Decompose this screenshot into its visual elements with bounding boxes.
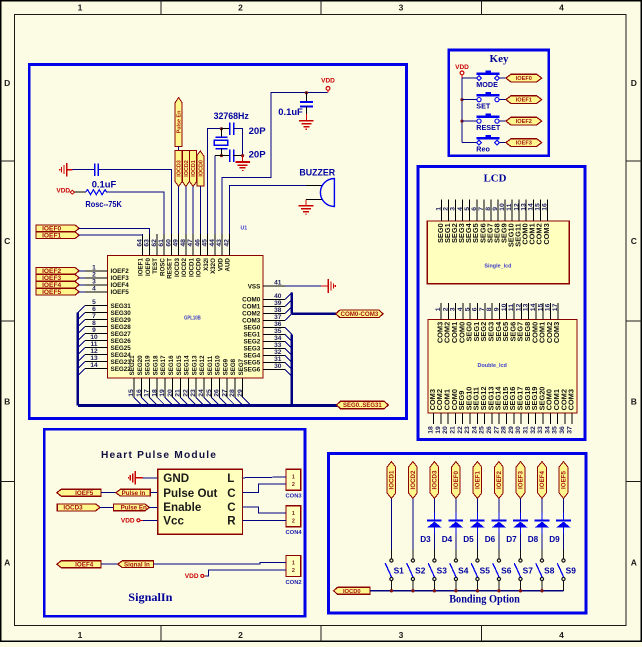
svg-text:COM0-COM3: COM0-COM3 — [340, 311, 378, 318]
port IOEF5 (Bonding, vertical) — [559, 462, 568, 499]
port IOCD3 (HPM) — [57, 504, 100, 511]
wire VDD to CON2-2 — [204, 575, 206, 577]
IC Double_lcd body — [428, 320, 577, 413]
wire S9 to bus — [562, 581, 564, 591]
wire D3 to S3 — [433, 534, 435, 549]
port IOCD1 (vertical) — [190, 151, 197, 187]
svg-text:1: 1 — [78, 3, 83, 13]
ground (buzzer) — [299, 205, 314, 207]
svg-text:47: 47 — [187, 239, 194, 247]
svg-text:2: 2 — [92, 271, 96, 278]
wire D8 to S8 — [541, 534, 543, 549]
svg-text:0.1uF: 0.1uF — [278, 106, 303, 117]
svg-text:2: 2 — [292, 519, 295, 525]
IC U1 bottom pins with numbers and names — [133, 378, 135, 397]
wire bottom node — [215, 155, 230, 157]
port IOEF2 (Bonding, vertical) — [495, 462, 504, 499]
wire entries COM0-COM3 to bus — [285, 292, 292, 299]
port IOEF4 (HPM) — [57, 561, 101, 568]
svg-text:RESET: RESET — [476, 123, 501, 132]
svg-text:28: 28 — [501, 426, 508, 434]
svg-text:S7: S7 — [523, 566, 534, 576]
switch S4 — [454, 559, 457, 562]
svg-text:20: 20 — [167, 389, 174, 397]
switch S7 — [519, 559, 522, 562]
resistor Rosc--75K — [85, 190, 106, 195]
IC U1 GPL10B body — [108, 256, 264, 379]
svg-text:9: 9 — [494, 307, 501, 311]
svg-text:IOEF2: IOEF2 — [496, 471, 503, 489]
svg-text:5: 5 — [464, 307, 471, 311]
svg-text:IOEF1: IOEF1 — [475, 471, 482, 489]
wire Key VDD rail — [461, 78, 463, 143]
svg-text:1: 1 — [78, 630, 83, 640]
wire IOEF2 to D6 — [498, 499, 500, 513]
svg-text:SEG12: SEG12 — [199, 355, 206, 376]
wire C decouple to gnd — [305, 106, 307, 113]
port IOEF3 (Key) — [506, 139, 542, 147]
svg-text:D: D — [631, 78, 637, 88]
svg-text:33: 33 — [537, 426, 544, 434]
svg-text:4: 4 — [559, 630, 564, 640]
frame zone tick marks — [160, 0, 162, 15]
wire C upper to gnd branch — [234, 129, 243, 156]
wire module PulseOut C to CON3-2 — [243, 484, 287, 493]
svg-text:IOCD0: IOCD0 — [196, 258, 203, 277]
svg-text:3: 3 — [399, 3, 404, 13]
diode D5 — [476, 513, 478, 520]
svg-text:14: 14 — [90, 362, 98, 369]
svg-text:IOEF1: IOEF1 — [42, 233, 61, 240]
svg-text:TEST: TEST — [152, 258, 159, 274]
diode D4 — [455, 513, 457, 520]
wire IOCD3 to Pulse En — [100, 506, 114, 508]
svg-text:D5: D5 — [463, 535, 474, 544]
svg-text:COM3: COM3 — [242, 318, 261, 325]
IC Double_lcd bottom pins 18-37 — [433, 413, 435, 424]
wire D5 to S5 — [476, 534, 478, 549]
svg-text:SEG18: SEG18 — [152, 355, 159, 376]
svg-text:X32O: X32O — [210, 258, 217, 274]
diode D8 — [541, 513, 543, 520]
switch RESET (push button) — [462, 120, 479, 122]
svg-text:RESET: RESET — [167, 258, 174, 279]
svg-text:A: A — [631, 558, 637, 568]
wire IOEF4 to pin3 — [79, 284, 85, 286]
svg-text:13: 13 — [520, 203, 527, 211]
IC Double_lcd top pins 1-17 — [440, 303, 442, 320]
junction Key rail row3 — [460, 120, 463, 123]
svg-text:24: 24 — [471, 426, 478, 434]
wire module Vcc R to CON4-2 — [243, 519, 287, 521]
svg-text:D: D — [4, 78, 10, 88]
diode D7 — [519, 513, 521, 520]
svg-text:CON3: CON3 — [286, 494, 303, 500]
svg-text:SEG31: SEG31 — [111, 303, 132, 310]
svg-text:32: 32 — [530, 426, 537, 434]
svg-text:VDD: VDD — [455, 64, 469, 71]
svg-text:Heart Pulse Module: Heart Pulse Module — [101, 450, 217, 461]
svg-text:Enable: Enable — [163, 501, 202, 514]
wire entries SEG31-SEG22 to left bus — [78, 306, 85, 313]
svg-text:D3: D3 — [420, 535, 431, 544]
svg-text:IOCD1: IOCD1 — [188, 258, 195, 277]
connector CON2 — [286, 555, 301, 576]
wire module L to CON3-1 — [243, 476, 287, 479]
svg-text:22: 22 — [182, 389, 189, 397]
svg-text:D8: D8 — [528, 535, 539, 544]
diode D9 — [562, 513, 564, 520]
LCD block border — [418, 167, 585, 440]
svg-text:33: 33 — [274, 342, 282, 349]
port IOCD3 (vertical) — [175, 151, 182, 187]
svg-text:C: C — [4, 236, 10, 246]
wire S1 to bus — [390, 581, 392, 591]
switch S5 — [476, 559, 479, 562]
svg-text:63: 63 — [144, 239, 151, 247]
wire pin41 VSS to ground — [285, 285, 321, 287]
port Pulse En (vertical) — [175, 98, 182, 147]
svg-text:Pulse En: Pulse En — [177, 111, 183, 134]
port IOEF3 — [36, 275, 79, 282]
svg-text:4: 4 — [457, 207, 464, 211]
switch S2 — [411, 559, 414, 562]
svg-text:15: 15 — [537, 303, 544, 311]
wire junction to C decouple — [305, 93, 307, 102]
wire IOEF5 to Pulse In — [101, 492, 116, 494]
svg-text:SignalIn: SignalIn — [128, 592, 173, 604]
svg-text:39: 39 — [274, 300, 282, 307]
MCU block border — [29, 65, 406, 419]
svg-text:25: 25 — [479, 426, 486, 434]
svg-text:12: 12 — [515, 303, 522, 311]
junction Key rail row2 — [460, 98, 463, 101]
svg-text:IOCD3: IOCD3 — [432, 470, 439, 489]
wire IOEF1 to pin64 — [79, 234, 142, 235]
junction S6 rail — [497, 589, 500, 592]
svg-text:13: 13 — [523, 303, 530, 311]
svg-text:25: 25 — [206, 389, 213, 397]
svg-text:10: 10 — [499, 203, 506, 211]
svg-text:12: 12 — [90, 348, 98, 355]
wire Pulse In to module — [150, 492, 157, 494]
svg-text:SEG24: SEG24 — [111, 352, 132, 359]
svg-text:IOEF4: IOEF4 — [539, 471, 546, 489]
wire IOCD1 to pin47 — [192, 187, 194, 235]
wire gnd branch down — [242, 156, 244, 162]
wire IOCD3 to pin49 — [178, 187, 180, 235]
svg-text:SEG3: SEG3 — [243, 346, 260, 353]
svg-text:SEG19: SEG19 — [145, 355, 152, 376]
svg-text:COM3: COM3 — [567, 389, 576, 410]
svg-text:SEG1: SEG1 — [243, 332, 260, 339]
connector CON4 — [286, 506, 301, 527]
svg-text:U1: U1 — [241, 226, 248, 232]
svg-text:SEG28: SEG28 — [111, 324, 132, 331]
junction gnd branch — [241, 154, 244, 157]
wire C lower to gnd branch — [234, 155, 243, 157]
IC Single_lcd body — [427, 221, 569, 284]
svg-text:IOCD3: IOCD3 — [63, 505, 83, 512]
svg-text:Pulse Out: Pulse Out — [163, 487, 217, 500]
svg-text:LCD: LCD — [484, 172, 507, 184]
wire IOCD1 to S1 — [390, 499, 392, 550]
wire Pulse En to IOCD3 flag — [178, 147, 180, 151]
svg-text:62: 62 — [151, 239, 158, 247]
junction VDD decoupling — [305, 91, 308, 94]
svg-text:1: 1 — [92, 264, 96, 271]
svg-text:Pulse In: Pulse In — [122, 490, 146, 497]
svg-text:11: 11 — [506, 203, 513, 210]
svg-text:SEG14: SEG14 — [184, 355, 191, 376]
svg-text:Rosc--75K: Rosc--75K — [85, 200, 121, 209]
wire Signal In to CON2-1 — [154, 563, 287, 565]
wire C to pin60 RESET — [99, 170, 171, 234]
svg-text:40: 40 — [274, 293, 282, 300]
svg-text:SEG4: SEG4 — [243, 353, 260, 360]
svg-text:IOEF3: IOEF3 — [111, 275, 130, 282]
port IOCD0 (Bonding) — [334, 587, 370, 594]
svg-text:SEG11: SEG11 — [207, 355, 214, 375]
switch S1 — [390, 559, 393, 562]
svg-text:2: 2 — [443, 207, 450, 211]
svg-text:10: 10 — [501, 303, 508, 311]
svg-text:44: 44 — [209, 239, 216, 247]
svg-text:41: 41 — [274, 280, 282, 287]
svg-text:SEG16: SEG16 — [168, 355, 175, 376]
bus bottom horizontal SEG — [78, 404, 338, 407]
junction S2 rail — [411, 589, 414, 592]
svg-text:IOEF3: IOEF3 — [518, 471, 525, 489]
svg-text:8: 8 — [92, 320, 96, 327]
svg-text:MODE: MODE — [476, 80, 498, 89]
wire X32I pin45 to crystal top node — [208, 129, 222, 234]
svg-text:B: B — [4, 397, 10, 407]
svg-text:COM2: COM2 — [242, 311, 261, 318]
svg-text:13: 13 — [90, 355, 98, 362]
svg-text:38: 38 — [274, 307, 282, 314]
svg-text:IOEF5: IOEF5 — [42, 289, 61, 296]
port IOEF5 — [36, 289, 79, 296]
svg-text:IOEF0: IOEF0 — [516, 76, 532, 82]
svg-text:CON2: CON2 — [286, 580, 302, 586]
svg-text:C: C — [631, 236, 637, 246]
svg-text:D4: D4 — [442, 535, 453, 544]
wire VDD to R — [75, 191, 86, 193]
svg-text:4: 4 — [92, 285, 96, 292]
svg-text:26: 26 — [214, 389, 221, 397]
svg-text:26: 26 — [486, 426, 493, 434]
wire S6 to bus — [498, 581, 500, 591]
svg-text:14: 14 — [527, 203, 534, 211]
wire buzzer to gnd — [305, 200, 307, 206]
svg-text:S9: S9 — [566, 566, 577, 576]
svg-text:34: 34 — [544, 426, 551, 434]
svg-text:L: L — [227, 472, 234, 485]
svg-text:35: 35 — [552, 426, 559, 434]
svg-text:3: 3 — [450, 307, 457, 311]
svg-text:16: 16 — [542, 203, 549, 211]
svg-text:12: 12 — [513, 203, 520, 211]
svg-text:7: 7 — [478, 207, 485, 211]
IC U1 right pins with numbers and names — [263, 285, 285, 287]
svg-text:24: 24 — [198, 389, 205, 397]
svg-text:1: 1 — [292, 561, 295, 567]
port IOEF3 (Bonding, vertical) — [516, 462, 525, 499]
svg-text:64: 64 — [137, 239, 144, 247]
svg-text:Reo: Reo — [476, 144, 490, 153]
switch Reo (push button) — [462, 142, 479, 144]
svg-text:VDD: VDD — [321, 78, 335, 85]
wire IOEF0 to pin63 — [79, 228, 150, 234]
wire D6 to S6 — [498, 534, 500, 549]
ground (crystal) — [235, 161, 250, 163]
bus left vertical SEG — [77, 313, 80, 406]
IC U1 left pins with numbers and names — [85, 270, 108, 272]
svg-text:14: 14 — [530, 303, 537, 311]
junction S5 rail — [476, 589, 479, 592]
port IOEF5 (HPM) — [57, 489, 101, 496]
svg-text:4: 4 — [457, 307, 464, 311]
wire entries SEG7-SEG21 to bottom bus — [134, 397, 142, 405]
svg-text:20P: 20P — [249, 149, 267, 160]
junction crystal bottom node — [220, 154, 223, 157]
wire S3 to bus — [433, 581, 435, 591]
svg-text:17: 17 — [144, 389, 151, 397]
svg-text:1: 1 — [292, 474, 295, 480]
port IOCD3 (Bonding, vertical) — [430, 462, 439, 499]
svg-text:S2: S2 — [415, 566, 426, 576]
svg-text:R: R — [227, 515, 236, 528]
svg-text:17: 17 — [552, 303, 559, 311]
svg-text:BUZZER: BUZZER — [299, 167, 335, 177]
svg-text:5: 5 — [92, 299, 96, 306]
svg-text:6: 6 — [471, 207, 478, 211]
svg-text:18: 18 — [428, 426, 435, 434]
wire S5 to bus — [476, 581, 478, 591]
switch S6 — [497, 559, 500, 562]
svg-text:20P: 20P — [249, 126, 267, 137]
svg-text:29: 29 — [237, 389, 244, 397]
buzzer LS1 body — [320, 179, 334, 207]
svg-text:IOCD1: IOCD1 — [389, 470, 396, 489]
svg-text:Bonding Option: Bonding Option — [449, 594, 520, 606]
wire module Enable C to CON4-1 — [243, 507, 287, 513]
wire IOEF5 to pin4 — [79, 291, 85, 293]
module U2 Heart-Pulse body — [158, 469, 243, 534]
svg-text:IOEF2: IOEF2 — [516, 119, 532, 125]
svg-text:GPL10B: GPL10B — [184, 315, 201, 321]
svg-text:45: 45 — [202, 239, 209, 247]
wire S8 to bus — [541, 581, 543, 591]
wire IOEF4 to D8 — [541, 499, 543, 513]
svg-text:SEG6: SEG6 — [243, 367, 260, 374]
svg-text:7: 7 — [479, 307, 486, 311]
svg-text:IOEF2: IOEF2 — [111, 268, 130, 275]
HPM block border — [44, 429, 305, 616]
wire R to pin61 ROSC — [107, 192, 165, 234]
wire IOEF5 to D9 — [562, 499, 564, 513]
wire VDD pin43 to top rail — [222, 93, 328, 234]
svg-text:D9: D9 — [549, 535, 560, 544]
svg-text:Signal In: Signal In — [124, 561, 150, 568]
svg-text:23: 23 — [190, 389, 197, 397]
svg-text:15: 15 — [128, 389, 135, 397]
svg-text:S3: S3 — [437, 566, 448, 576]
svg-text:16: 16 — [545, 303, 552, 311]
svg-text:SEG8: SEG8 — [230, 358, 237, 375]
svg-text:42: 42 — [224, 239, 231, 247]
ground left of C 0.1uF — [66, 163, 68, 177]
Key block border — [449, 50, 549, 156]
wire IOEF0 to D4 — [455, 499, 457, 513]
svg-text:18: 18 — [151, 389, 158, 397]
svg-text:SEG17: SEG17 — [160, 355, 167, 376]
svg-text:Key: Key — [490, 53, 509, 65]
svg-text:S1: S1 — [394, 566, 405, 576]
port IOEF1 (Bonding, vertical) — [473, 462, 482, 499]
wire D4 to S4 — [455, 534, 457, 549]
svg-text:VDD: VDD — [121, 517, 135, 524]
svg-text:A: A — [4, 558, 10, 568]
wire IOCD3 to D3 — [433, 499, 435, 513]
svg-text:COM1: COM1 — [242, 304, 261, 311]
svg-text:SEG10: SEG10 — [215, 355, 222, 376]
netlabel flag Pulse En — [114, 504, 150, 511]
svg-text:IOCD3: IOCD3 — [174, 258, 181, 277]
svg-text:29: 29 — [508, 426, 515, 434]
diode D6 — [498, 513, 500, 520]
junction S3 rail — [433, 589, 436, 592]
svg-text:IOCD1: IOCD1 — [191, 160, 197, 176]
svg-text:0.1uF: 0.1uF — [92, 178, 117, 189]
svg-text:9: 9 — [492, 207, 499, 211]
svg-text:SEG0: SEG0 — [243, 325, 260, 332]
wire D7 to S7 — [519, 534, 521, 549]
svg-text:SEG20: SEG20 — [137, 355, 144, 376]
svg-text:5: 5 — [464, 207, 471, 211]
connector CON3 — [286, 469, 301, 490]
wire X32O pin44 to bottom node — [214, 156, 216, 234]
port IOEF2 (Key) — [506, 117, 542, 125]
svg-text:IOEF1: IOEF1 — [516, 98, 532, 104]
ground (module GND pin) — [134, 471, 136, 485]
switch S9 — [562, 559, 565, 562]
svg-text:27: 27 — [493, 426, 500, 434]
junction crystal top node — [220, 127, 223, 130]
svg-text:36: 36 — [559, 426, 566, 434]
wire IOCD2 to S2 — [412, 499, 414, 550]
wire IOEF4 to Signal In — [101, 563, 118, 565]
svg-text:VDD: VDD — [217, 258, 224, 272]
port IOCD1 (Bonding, vertical) — [387, 462, 396, 499]
wire IOEF2 to pin1 — [79, 270, 85, 272]
svg-text:SEG0..SEG31: SEG0..SEG31 — [343, 403, 382, 409]
svg-text:S5: S5 — [480, 566, 491, 576]
svg-text:IOCD3: IOCD3 — [177, 160, 183, 176]
junction S8 rail — [540, 589, 543, 592]
svg-text:COM3: COM3 — [542, 223, 551, 244]
svg-text:6: 6 — [472, 307, 479, 311]
svg-text:S8: S8 — [544, 566, 555, 576]
svg-text:SEG13: SEG13 — [191, 355, 198, 376]
svg-text:S4: S4 — [458, 566, 469, 576]
port SEG0..SEG31 — [337, 401, 389, 408]
switch MODE (push button) — [462, 77, 479, 79]
switch SET (push button) — [462, 99, 479, 101]
svg-text:35: 35 — [274, 328, 282, 335]
svg-text:31: 31 — [523, 426, 530, 434]
